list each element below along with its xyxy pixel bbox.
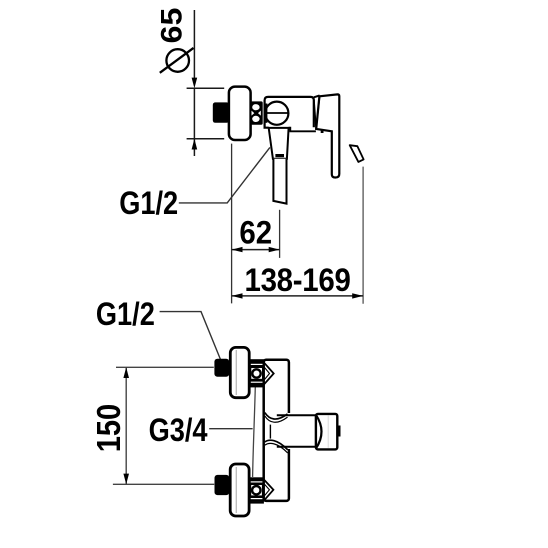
svg-text:138-169: 138-169 [245,262,351,298]
svg-text:150: 150 [90,404,127,452]
svg-text:G1/2: G1/2 [96,297,155,333]
svg-text:65: 65 [155,8,189,44]
svg-text:62: 62 [239,214,272,250]
svg-text:G3/4: G3/4 [149,413,208,449]
svg-text:G1/2: G1/2 [119,186,178,222]
